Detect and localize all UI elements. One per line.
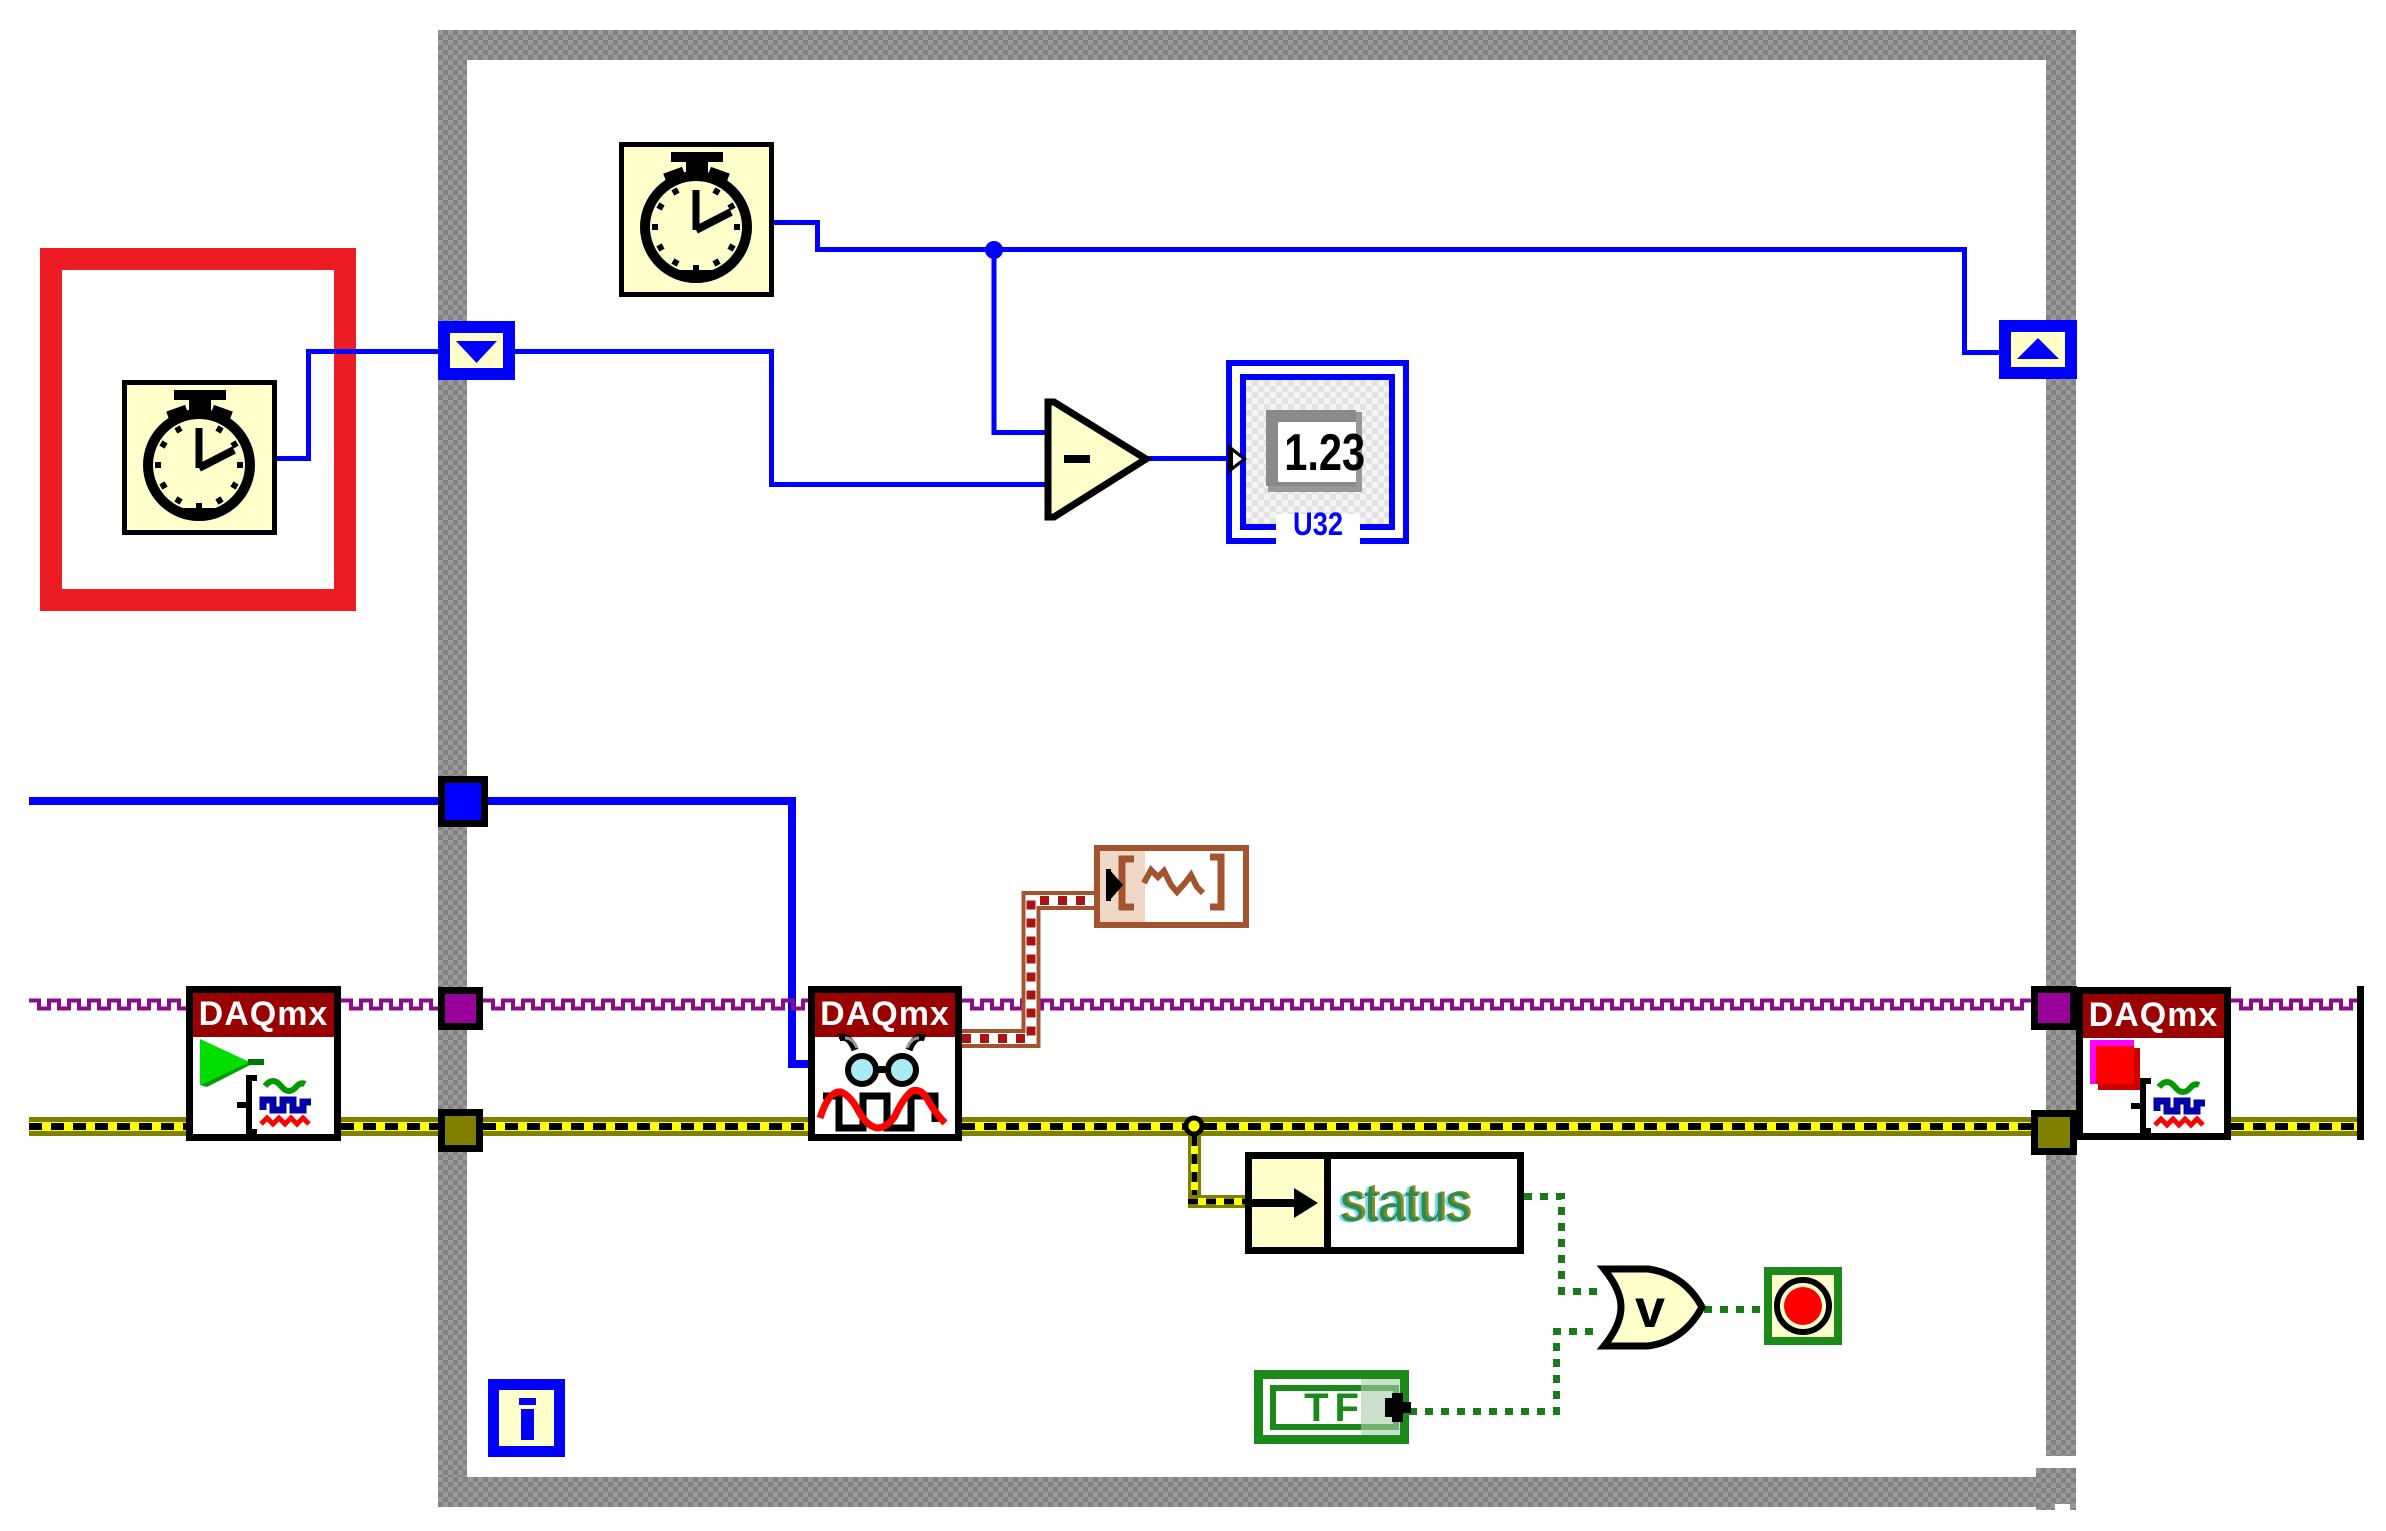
svg-text:v: v [1635, 1279, 1665, 1339]
